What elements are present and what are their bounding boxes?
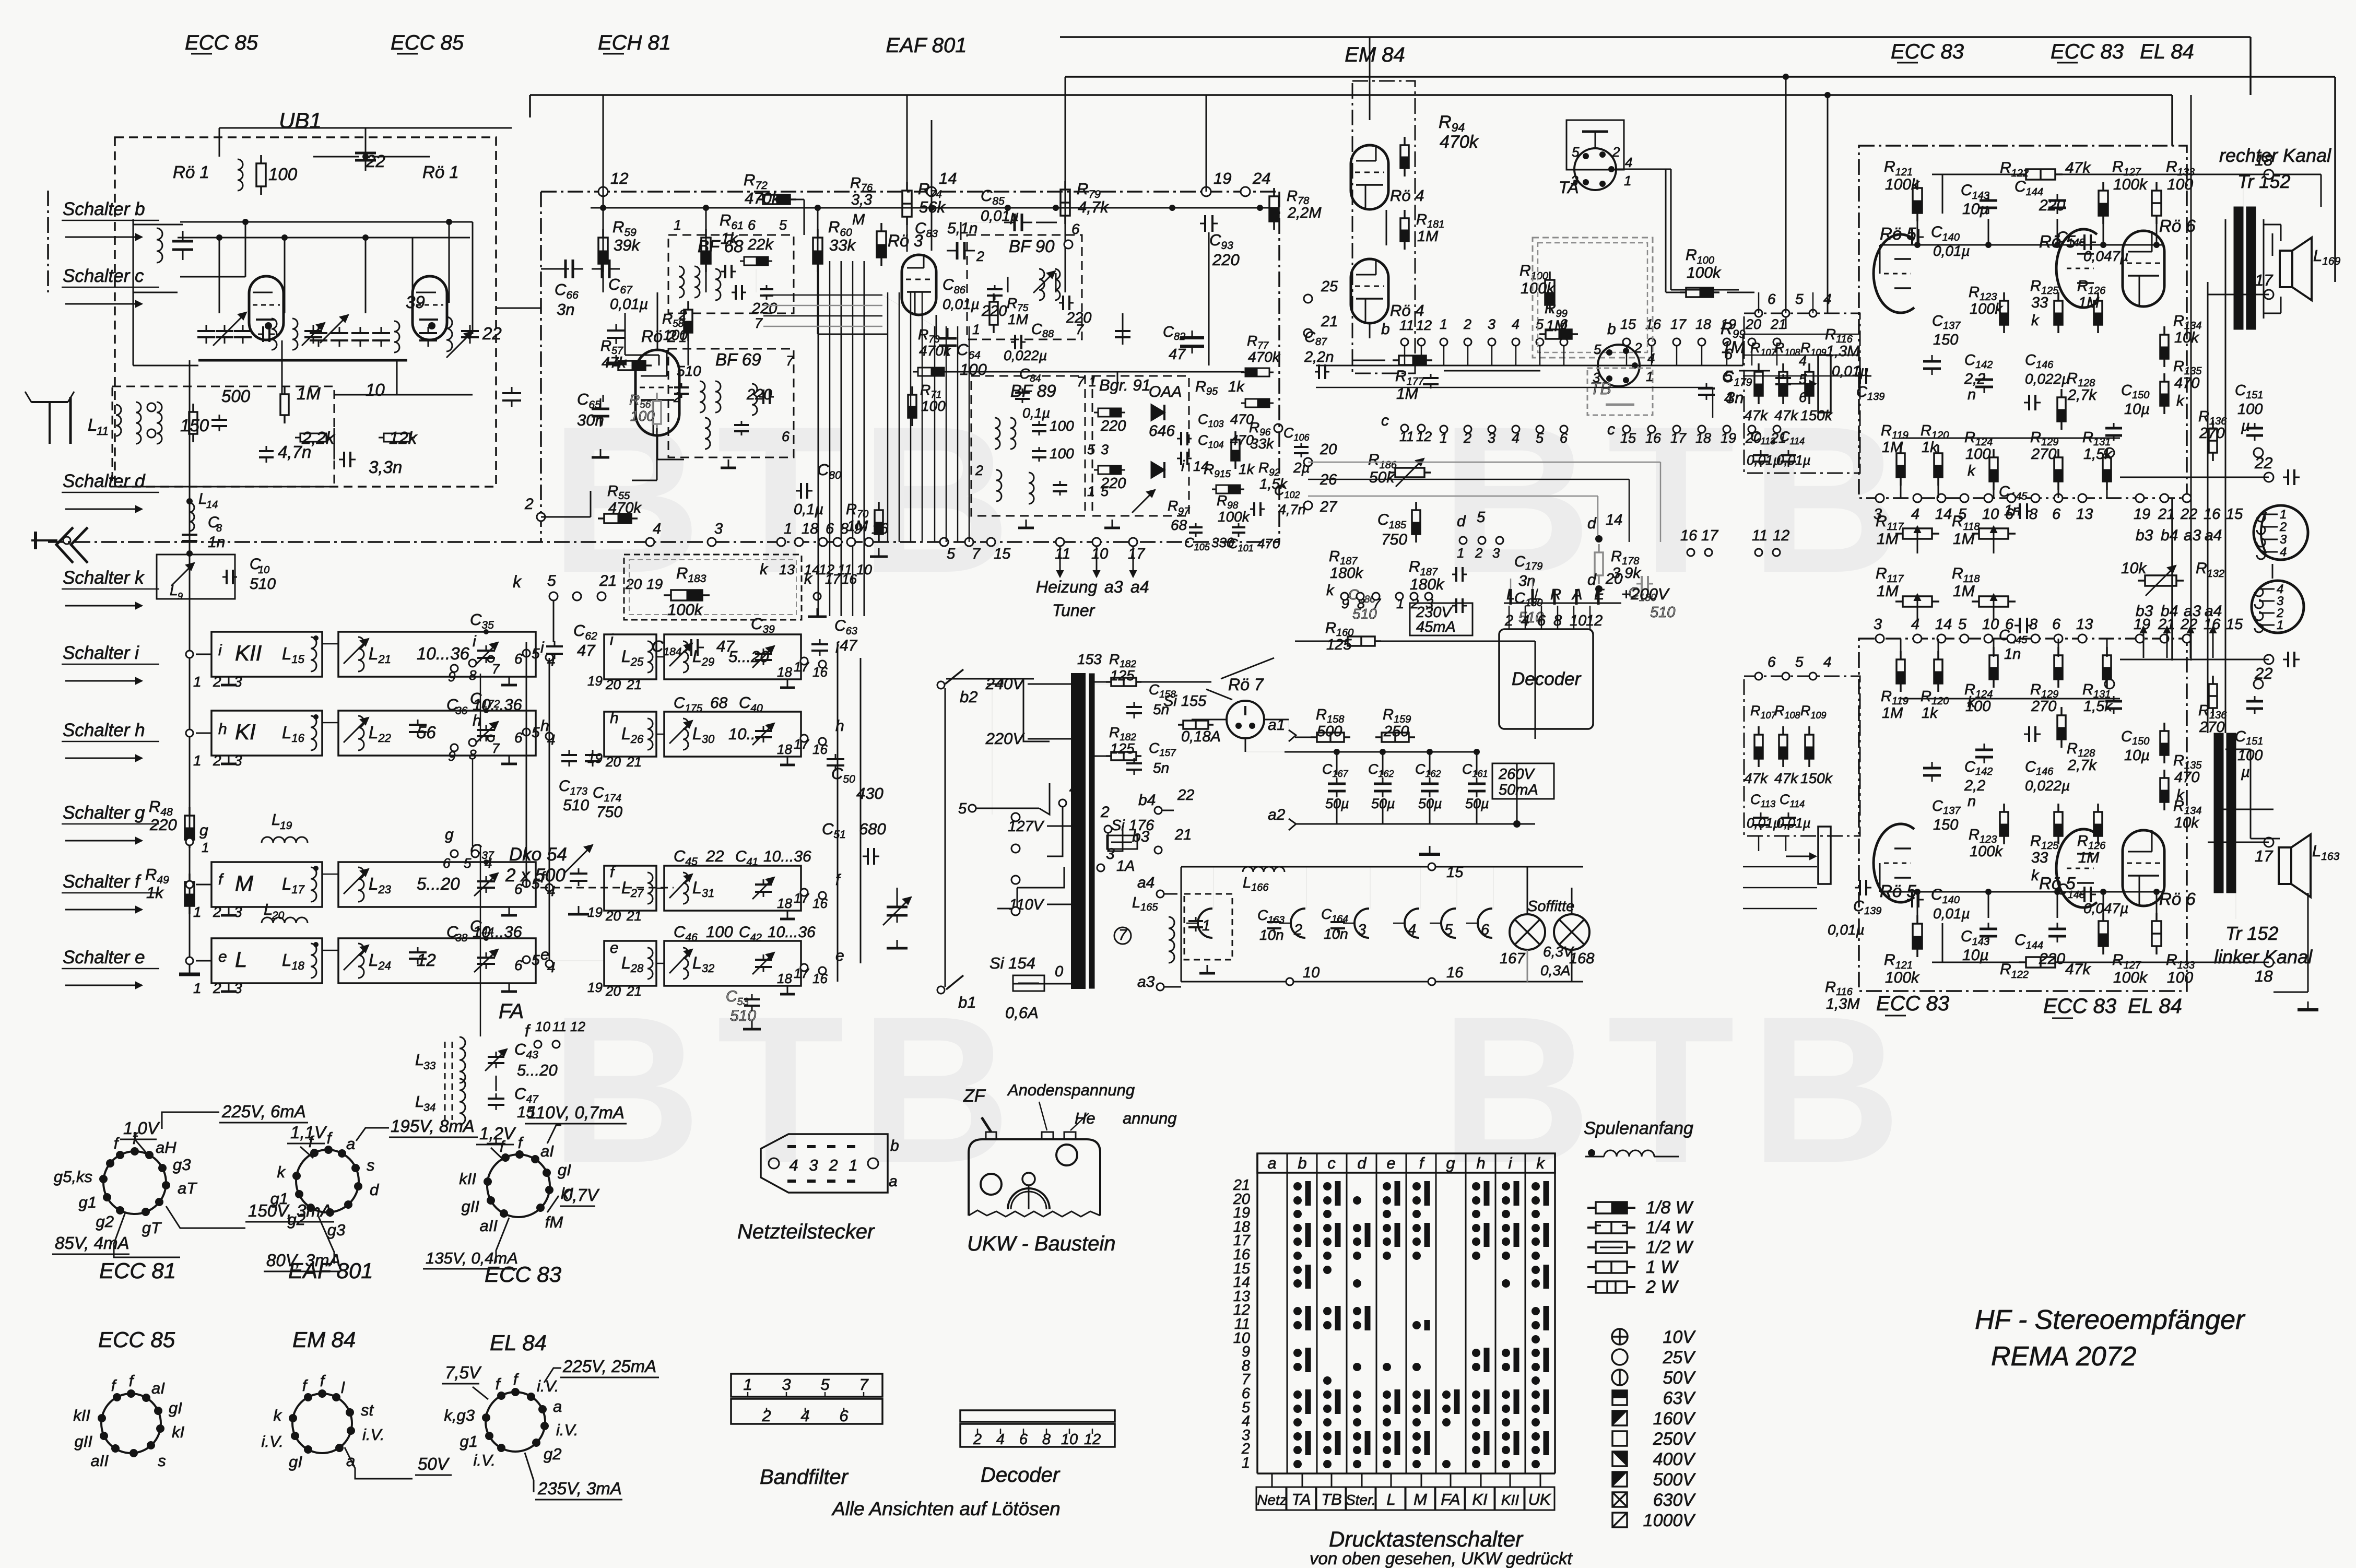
- svg-text:6: 6: [443, 855, 451, 871]
- svg-text:19: 19: [646, 576, 663, 592]
- svg-text:4,7n: 4,7n: [1278, 502, 1306, 517]
- svg-text:7: 7: [492, 661, 500, 677]
- svg-text:21: 21: [1770, 316, 1786, 332]
- svg-text:167: 167: [1500, 950, 1526, 967]
- svg-text:510: 510: [677, 363, 701, 379]
- svg-text:BF 89: BF 89: [1010, 381, 1056, 400]
- svg-text:1k: 1k: [1228, 379, 1245, 395]
- svg-text:aII: aII: [480, 1217, 498, 1235]
- svg-text:10...: 10...: [728, 725, 760, 743]
- svg-text:15: 15: [2226, 506, 2243, 523]
- svg-text:2: 2: [673, 390, 681, 405]
- svg-text:s: s: [367, 1156, 375, 1174]
- svg-text:b3: b3: [2136, 603, 2153, 620]
- svg-text:180k: 180k: [1330, 565, 1363, 582]
- svg-text:EM 84: EM 84: [292, 1327, 356, 1352]
- svg-text:6: 6: [826, 521, 834, 537]
- svg-text:47k: 47k: [1774, 407, 1799, 423]
- svg-text:ECC 85: ECC 85: [98, 1327, 175, 1352]
- svg-text:M: M: [852, 211, 865, 228]
- svg-text:rechter Kanal: rechter Kanal: [2219, 145, 2331, 166]
- svg-text:100k: 100k: [1687, 264, 1722, 281]
- svg-text:Rö 4: Rö 4: [1390, 186, 1424, 205]
- svg-text:20: 20: [605, 677, 621, 692]
- svg-text:Tr 152: Tr 152: [2225, 923, 2278, 944]
- svg-text:15: 15: [994, 546, 1011, 562]
- svg-text:400V: 400V: [1653, 1449, 1697, 1469]
- svg-text:21: 21: [626, 677, 642, 692]
- svg-text:6: 6: [2005, 616, 2014, 633]
- svg-text:34: 34: [423, 1102, 435, 1114]
- svg-text:1: 1: [1202, 917, 1210, 934]
- svg-text:1,5k: 1,5k: [2083, 698, 2113, 715]
- svg-text:5: 5: [1087, 442, 1095, 457]
- svg-text:500: 500: [221, 386, 251, 406]
- svg-text:33: 33: [2031, 294, 2048, 311]
- svg-text:k: k: [2176, 787, 2185, 804]
- svg-text:g2: g2: [96, 1212, 114, 1231]
- svg-text:1M: 1M: [1008, 311, 1029, 327]
- svg-text:19: 19: [587, 673, 603, 689]
- svg-text:a3: a3: [1104, 577, 1123, 596]
- svg-text:16: 16: [1446, 964, 1464, 981]
- svg-text:17: 17: [1128, 546, 1146, 562]
- svg-text:h: h: [540, 717, 549, 735]
- svg-text:2: 2: [1463, 316, 1471, 332]
- svg-text:0,1µ: 0,1µ: [1022, 405, 1050, 421]
- svg-text:225V, 25mA: 225V, 25mA: [562, 1357, 656, 1376]
- svg-text:50V: 50V: [418, 1454, 450, 1473]
- svg-text:1: 1: [679, 329, 687, 345]
- svg-text:33k: 33k: [1250, 435, 1275, 452]
- svg-text:2: 2: [524, 496, 534, 513]
- svg-text:20: 20: [272, 910, 285, 922]
- svg-text:L: L: [415, 1092, 424, 1111]
- svg-text:d: d: [370, 1181, 380, 1199]
- svg-text:7: 7: [1118, 927, 1128, 944]
- svg-text:µ: µ: [2241, 418, 2250, 434]
- svg-text:1000V: 1000V: [1643, 1511, 1697, 1530]
- svg-text:2: 2: [213, 904, 221, 920]
- svg-text:150k: 150k: [1800, 770, 1833, 786]
- svg-text:Heizung: Heizung: [1036, 577, 1098, 596]
- svg-text:80V, 3mA: 80V, 3mA: [266, 1251, 340, 1270]
- svg-text:FA: FA: [499, 1000, 524, 1023]
- svg-text:1M: 1M: [2078, 850, 2100, 866]
- svg-text:168: 168: [1569, 950, 1594, 967]
- svg-text:10: 10: [1091, 546, 1108, 562]
- svg-text:12: 12: [819, 562, 834, 577]
- svg-text:1M: 1M: [2078, 294, 2100, 311]
- svg-text:0,01µ: 0,01µ: [943, 296, 980, 312]
- svg-text:27: 27: [1320, 499, 1338, 515]
- svg-text:4: 4: [653, 521, 661, 537]
- svg-text:2: 2: [1634, 340, 1642, 356]
- svg-text:2: 2: [678, 307, 687, 323]
- svg-text:EAF 801: EAF 801: [886, 34, 967, 57]
- svg-text:6: 6: [1481, 922, 1490, 938]
- svg-text:7: 7: [1077, 374, 1085, 390]
- svg-text:21: 21: [626, 754, 642, 770]
- svg-text:g1: g1: [460, 1432, 478, 1451]
- svg-text:1: 1: [193, 904, 202, 920]
- svg-text:i.V.: i.V.: [262, 1432, 284, 1451]
- svg-text:153: 153: [1077, 651, 1102, 667]
- svg-text:BF 90: BF 90: [1009, 237, 1055, 256]
- svg-text:14: 14: [804, 562, 820, 577]
- svg-text:e: e: [1386, 1154, 1395, 1172]
- svg-text:150k: 150k: [1800, 407, 1833, 423]
- svg-text:EL 84: EL 84: [490, 1330, 547, 1355]
- svg-text:3: 3: [2280, 533, 2287, 547]
- svg-text:0,01µ: 0,01µ: [1776, 452, 1811, 468]
- svg-text:UB1: UB1: [279, 108, 322, 133]
- svg-text:17: 17: [2255, 847, 2273, 865]
- svg-text:220: 220: [751, 300, 777, 317]
- svg-text:14: 14: [1935, 616, 1952, 633]
- svg-text:4: 4: [1625, 155, 1632, 170]
- svg-text:630V: 630V: [1653, 1490, 1697, 1510]
- svg-text:12: 12: [1416, 317, 1432, 333]
- svg-text:k: k: [2031, 312, 2040, 329]
- svg-text:5: 5: [1444, 922, 1453, 938]
- svg-text:1A: 1A: [1116, 858, 1135, 875]
- svg-text:45mA: 45mA: [1416, 619, 1456, 635]
- svg-text:d: d: [1357, 1154, 1367, 1172]
- svg-text:220: 220: [149, 816, 177, 834]
- svg-text:6: 6: [2005, 506, 2014, 523]
- svg-text:14: 14: [1193, 458, 1209, 474]
- svg-text:BTB: BTB: [550, 973, 1027, 1206]
- svg-text:1: 1: [1457, 545, 1464, 561]
- svg-text:125: 125: [1110, 667, 1135, 683]
- svg-text:47: 47: [577, 641, 596, 659]
- svg-text:Si 155: Si 155: [1163, 693, 1207, 710]
- svg-text:1k: 1k: [1239, 461, 1255, 477]
- svg-text:500V: 500V: [1653, 1470, 1697, 1490]
- svg-text:c: c: [1607, 421, 1615, 438]
- svg-text:ECH 81: ECH 81: [598, 31, 671, 54]
- svg-text:11: 11: [1752, 527, 1768, 544]
- svg-text:2: 2: [975, 463, 983, 478]
- svg-text:100: 100: [1050, 445, 1074, 462]
- svg-text:5: 5: [532, 724, 540, 740]
- svg-text:Anodenspannung: Anodenspannung: [1007, 1081, 1135, 1099]
- svg-text:BF 69: BF 69: [715, 350, 761, 369]
- svg-text:a3: a3: [1137, 973, 1155, 991]
- svg-text:BF 68: BF 68: [698, 237, 744, 256]
- svg-text:EL 84: EL 84: [2140, 40, 2194, 63]
- svg-text:220: 220: [1212, 251, 1240, 269]
- svg-text:gII: gII: [462, 1197, 480, 1216]
- svg-text:Si 176: Si 176: [1111, 817, 1155, 834]
- svg-text:180k: 180k: [1410, 576, 1445, 593]
- svg-text:47k: 47k: [602, 355, 627, 371]
- svg-text:12: 12: [1586, 612, 1603, 629]
- svg-text:22: 22: [2254, 454, 2272, 472]
- svg-text:3: 3: [1593, 370, 1600, 385]
- svg-text:68: 68: [710, 694, 728, 712]
- svg-text:d: d: [1457, 513, 1466, 530]
- svg-text:10...36: 10...36: [768, 924, 816, 941]
- svg-text:g: g: [199, 822, 208, 839]
- svg-text:1: 1: [784, 521, 792, 537]
- svg-text:1k: 1k: [1922, 705, 1938, 722]
- svg-text:4: 4: [1823, 654, 1832, 670]
- svg-text:12: 12: [1773, 527, 1789, 544]
- svg-text:500: 500: [1317, 723, 1342, 740]
- svg-text:TB: TB: [1321, 1490, 1342, 1508]
- svg-text:a: a: [889, 1173, 898, 1190]
- svg-text:Rö 5: Rö 5: [1880, 224, 1916, 243]
- svg-text:100k: 100k: [1885, 176, 1920, 193]
- svg-text:7: 7: [755, 315, 763, 331]
- svg-text:6: 6: [748, 217, 756, 233]
- svg-text:21: 21: [1321, 313, 1338, 330]
- svg-text:18: 18: [777, 741, 792, 757]
- svg-text:7: 7: [492, 740, 500, 756]
- svg-text:KI: KI: [235, 720, 256, 744]
- svg-text:100k: 100k: [2113, 969, 2148, 986]
- svg-text:22k: 22k: [747, 236, 774, 253]
- svg-text:10µ: 10µ: [2124, 747, 2150, 764]
- svg-text:97: 97: [1178, 506, 1190, 517]
- svg-text:1: 1: [202, 840, 209, 855]
- svg-text:3n: 3n: [557, 300, 574, 319]
- svg-text:b: b: [1381, 321, 1390, 338]
- svg-text:150: 150: [1933, 817, 1958, 833]
- svg-text:e: e: [218, 948, 227, 965]
- svg-text:18: 18: [777, 664, 792, 680]
- svg-text:k: k: [2176, 393, 2185, 409]
- svg-text:Schalter h: Schalter h: [63, 720, 145, 740]
- svg-text:1: 1: [972, 322, 980, 337]
- svg-text:5: 5: [1958, 616, 1967, 633]
- svg-text:100k: 100k: [1970, 843, 2003, 860]
- svg-text:L: L: [1386, 1490, 1395, 1508]
- svg-text:1: 1: [1440, 316, 1447, 332]
- svg-text:470k: 470k: [608, 500, 642, 516]
- svg-text:L: L: [415, 1051, 424, 1069]
- svg-text:1M: 1M: [1953, 530, 1975, 548]
- svg-text:7: 7: [972, 546, 981, 562]
- svg-text:Rö 7: Rö 7: [1228, 675, 1264, 694]
- svg-text:2: 2: [213, 674, 221, 690]
- svg-text:Ster.: Ster.: [1346, 1492, 1376, 1508]
- svg-text:21: 21: [626, 908, 642, 924]
- svg-text:100k: 100k: [667, 600, 703, 619]
- svg-text:s: s: [158, 1452, 166, 1470]
- svg-text:510: 510: [1650, 604, 1675, 621]
- svg-text:UKW - Baustein: UKW - Baustein: [967, 1232, 1116, 1255]
- svg-text:k: k: [1968, 694, 1976, 711]
- svg-text:3: 3: [1488, 316, 1495, 332]
- svg-text:i.V.: i.V.: [362, 1425, 385, 1444]
- svg-text:100: 100: [2167, 176, 2193, 193]
- svg-text:5: 5: [1536, 316, 1544, 332]
- svg-text:M: M: [1413, 1490, 1427, 1508]
- svg-text:1M: 1M: [1882, 705, 1903, 722]
- svg-text:10: 10: [366, 380, 385, 399]
- svg-text:gII: gII: [75, 1432, 93, 1451]
- svg-text:3: 3: [234, 752, 242, 769]
- svg-text:0,7V: 0,7V: [563, 1185, 600, 1205]
- svg-text:1M: 1M: [1877, 530, 1899, 548]
- svg-text:0,047µ: 0,047µ: [2083, 900, 2128, 916]
- svg-text:L: L: [170, 582, 178, 598]
- svg-text:11: 11: [838, 562, 852, 577]
- svg-text:20: 20: [1320, 441, 1337, 458]
- svg-text:von oben gesehen, UKW gedrückt: von oben gesehen, UKW gedrückt: [1310, 1549, 1573, 1568]
- svg-text:235V, 3mA: 235V, 3mA: [537, 1479, 622, 1498]
- svg-text:h: h: [1476, 1154, 1485, 1172]
- svg-text:10: 10: [1982, 616, 1999, 633]
- svg-text:b: b: [1607, 321, 1616, 338]
- svg-text:2 W: 2 W: [1645, 1277, 1679, 1297]
- svg-text:g3: g3: [173, 1156, 191, 1174]
- svg-text:750: 750: [596, 804, 622, 821]
- svg-text:i.V.: i.V.: [474, 1451, 496, 1469]
- svg-text:36: 36: [455, 705, 468, 717]
- svg-text:11: 11: [1055, 546, 1070, 562]
- svg-text:17: 17: [1670, 316, 1687, 332]
- svg-text:g2: g2: [544, 1445, 561, 1463]
- svg-text:6: 6: [1768, 654, 1776, 670]
- svg-text:h: h: [218, 721, 227, 738]
- svg-text:2: 2: [1100, 804, 1110, 821]
- svg-text:4: 4: [1823, 291, 1832, 307]
- svg-text:M: M: [235, 871, 253, 895]
- svg-text:250V: 250V: [1653, 1429, 1697, 1449]
- svg-text:0,022µ: 0,022µ: [1004, 348, 1047, 363]
- svg-text:5: 5: [1477, 509, 1486, 526]
- svg-text:3: 3: [234, 904, 242, 920]
- svg-text:gI: gI: [289, 1453, 302, 1471]
- svg-text:1/4 W: 1/4 W: [1646, 1218, 1694, 1237]
- svg-text:Bandfilter: Bandfilter: [760, 1466, 849, 1489]
- svg-text:22: 22: [705, 847, 724, 865]
- svg-text:a: a: [553, 1397, 562, 1416]
- svg-text:1M: 1M: [1877, 583, 1899, 600]
- svg-text:150: 150: [1933, 332, 1958, 348]
- svg-text:ECC 83: ECC 83: [1891, 40, 1964, 63]
- svg-text:0,022µ: 0,022µ: [2025, 777, 2070, 794]
- svg-text:2: 2: [2279, 520, 2287, 534]
- svg-text:10: 10: [856, 562, 872, 577]
- svg-text:12: 12: [570, 1019, 585, 1034]
- svg-text:a3: a3: [2184, 527, 2201, 544]
- svg-text:9: 9: [448, 669, 455, 685]
- svg-text:Schalter d: Schalter d: [63, 471, 146, 491]
- svg-text:0,01µ: 0,01µ: [1828, 922, 1865, 938]
- svg-text:5: 5: [532, 645, 540, 662]
- svg-text:Rö 1: Rö 1: [173, 162, 209, 182]
- svg-text:24: 24: [1252, 169, 1270, 187]
- svg-text:aI: aI: [151, 1379, 165, 1397]
- svg-text:0,01µ: 0,01µ: [1933, 905, 1970, 922]
- svg-text:4: 4: [1911, 506, 1919, 523]
- svg-text:6: 6: [2052, 506, 2061, 523]
- svg-text:470: 470: [2174, 375, 2199, 392]
- svg-text:19: 19: [587, 904, 603, 920]
- svg-text:20: 20: [605, 983, 621, 999]
- svg-text:5: 5: [1572, 144, 1580, 160]
- svg-text:5: 5: [1724, 368, 1733, 385]
- svg-text:38: 38: [455, 932, 468, 944]
- svg-text:k: k: [1536, 1154, 1545, 1172]
- svg-text:16: 16: [2204, 506, 2221, 523]
- svg-text:1: 1: [674, 217, 681, 233]
- svg-text:ECC 81: ECC 81: [99, 1258, 176, 1283]
- svg-text:5: 5: [1101, 484, 1109, 499]
- svg-text:TA: TA: [1291, 1490, 1311, 1508]
- svg-text:0,1µ: 0,1µ: [794, 501, 823, 518]
- svg-text:Schalter b: Schalter b: [63, 199, 145, 219]
- svg-text:Alle Ansichten auf Lötösen: Alle Ansichten auf Lötösen: [831, 1498, 1061, 1519]
- svg-text:20: 20: [625, 576, 642, 592]
- svg-text:a4: a4: [1137, 874, 1155, 891]
- svg-text:510: 510: [563, 797, 589, 814]
- svg-text:0,01µ: 0,01µ: [1832, 363, 1869, 379]
- svg-text:g5,ks: g5,ks: [54, 1168, 92, 1186]
- svg-text:18: 18: [777, 971, 792, 986]
- svg-text:2 x 500: 2 x 500: [505, 865, 566, 886]
- svg-text:2,7k: 2,7k: [2067, 387, 2097, 404]
- svg-text:1k: 1k: [146, 883, 164, 902]
- svg-text:11: 11: [97, 425, 109, 438]
- svg-text:fM: fM: [545, 1213, 563, 1231]
- svg-text:8: 8: [469, 667, 477, 683]
- svg-text:5...20: 5...20: [517, 1061, 558, 1079]
- svg-text:0,6A: 0,6A: [1005, 1004, 1039, 1022]
- svg-text:EM 84: EM 84: [1345, 43, 1405, 66]
- svg-text:19: 19: [1214, 169, 1231, 187]
- svg-text:7,5V: 7,5V: [445, 1363, 482, 1382]
- svg-text:a2: a2: [1268, 806, 1286, 823]
- svg-text:10: 10: [258, 564, 269, 576]
- svg-text:g1: g1: [270, 1189, 288, 1208]
- svg-text:3: 3: [1874, 616, 1882, 633]
- svg-text:1,1V: 1,1V: [290, 1123, 327, 1142]
- svg-text:220: 220: [2039, 950, 2065, 968]
- svg-text:22: 22: [2180, 506, 2197, 523]
- svg-text:100: 100: [268, 164, 298, 184]
- svg-text:125: 125: [1110, 740, 1135, 757]
- svg-text:5: 5: [779, 217, 787, 233]
- svg-text:6: 6: [782, 429, 790, 444]
- svg-text:20: 20: [605, 908, 621, 924]
- svg-text:He: He: [1075, 1109, 1095, 1127]
- svg-text:100k: 100k: [1218, 509, 1251, 525]
- svg-text:b1: b1: [958, 993, 976, 1011]
- svg-text:470k: 470k: [919, 343, 952, 359]
- svg-text:i.V.: i.V.: [537, 1377, 559, 1395]
- svg-text:10µ: 10µ: [2124, 401, 2150, 418]
- svg-text:l: l: [341, 1378, 345, 1397]
- svg-text:2,7k: 2,7k: [2067, 757, 2097, 774]
- svg-text:10...36: 10...36: [763, 848, 811, 865]
- svg-text:100: 100: [706, 923, 733, 941]
- svg-text:21: 21: [599, 572, 617, 590]
- svg-text:2: 2: [213, 752, 221, 769]
- svg-text:25: 25: [1321, 278, 1338, 295]
- svg-text:8: 8: [2029, 616, 2037, 633]
- svg-text:b4: b4: [2161, 603, 2178, 620]
- svg-text:0,3A: 0,3A: [1540, 962, 1571, 978]
- svg-text:18: 18: [802, 521, 818, 537]
- svg-text:6: 6: [514, 651, 523, 667]
- svg-text:ECC 83: ECC 83: [2043, 995, 2116, 1018]
